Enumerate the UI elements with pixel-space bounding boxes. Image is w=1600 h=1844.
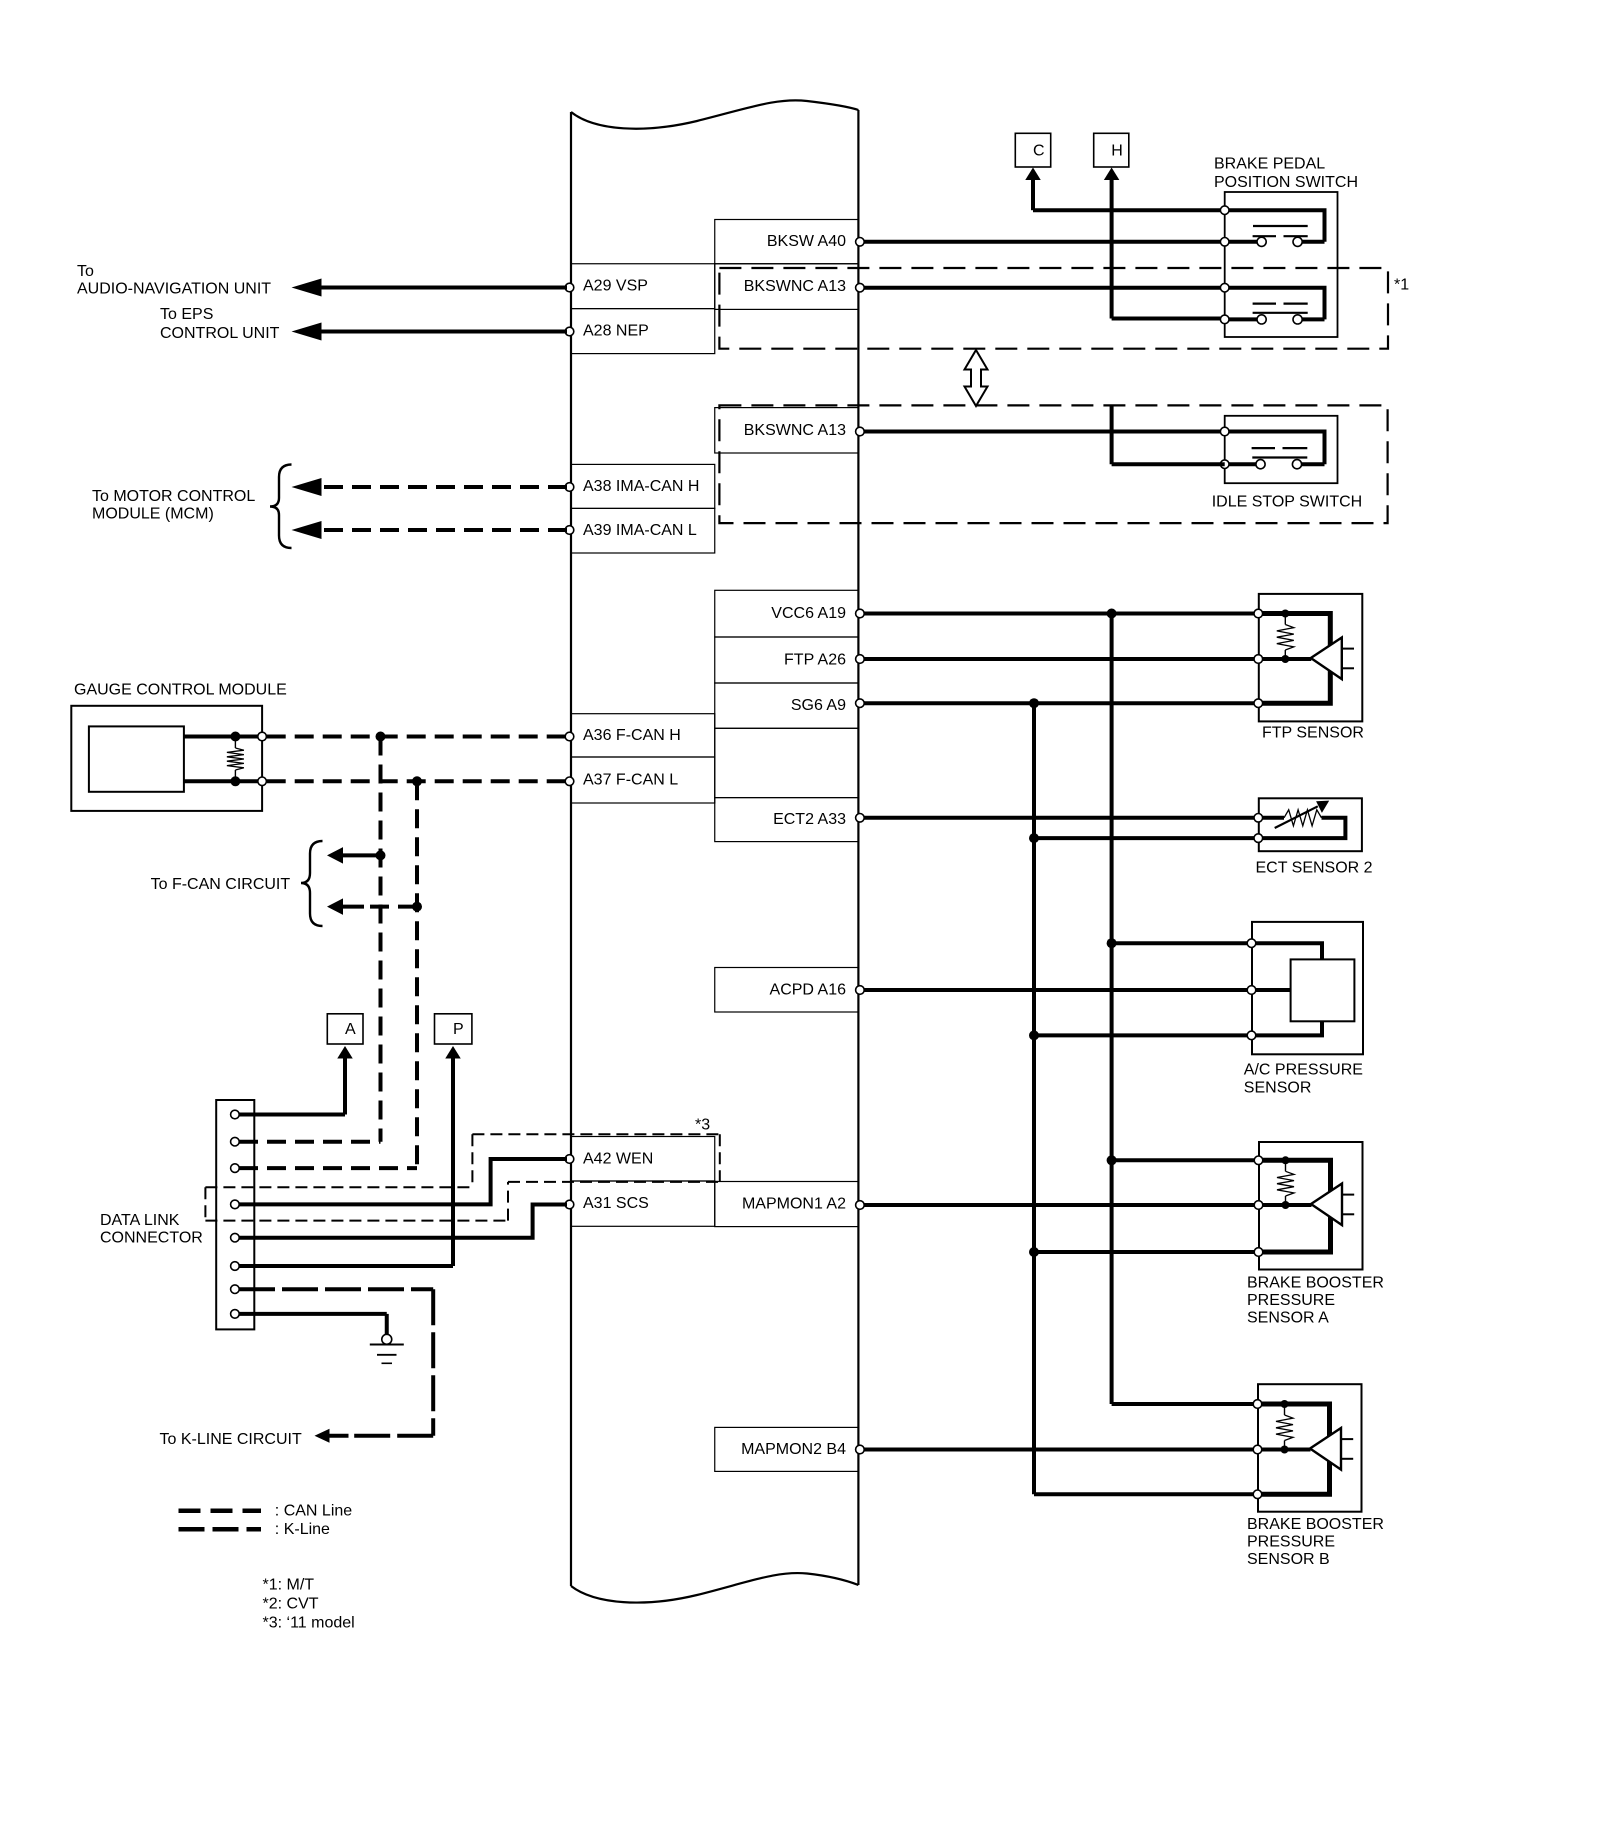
ECM pin A37 bbox=[565, 777, 574, 786]
svg-text:POSITION SWITCH: POSITION SWITCH bbox=[1214, 174, 1358, 191]
data link connector pin 4 bbox=[231, 1200, 240, 1209]
svg-text:BRAKE BOOSTER: BRAKE BOOSTER bbox=[1247, 1516, 1384, 1533]
svg-text:FTP SENSOR: FTP SENSOR bbox=[1262, 725, 1364, 742]
svg-text:ECT SENSOR 2: ECT SENSOR 2 bbox=[1256, 860, 1373, 877]
svg-text:A31 SCS: A31 SCS bbox=[583, 1195, 649, 1212]
svg-text:A29 VSP: A29 VSP bbox=[583, 278, 648, 295]
ECM pin box A42 WEN bbox=[571, 1137, 715, 1182]
wire MAPMON1 A2 bbox=[862, 1203, 1259, 1207]
wire DLC pin4 to A42 WEN bbox=[239, 1159, 567, 1204]
svg-text:MAPMON2 B4: MAPMON2 B4 bbox=[741, 1441, 846, 1458]
svg-text:A37 F-CAN L: A37 F-CAN L bbox=[583, 772, 678, 789]
svg-text:CONNECTOR: CONNECTOR bbox=[100, 1230, 203, 1247]
wire VCC6 A19 bbox=[862, 612, 1258, 616]
svg-text:BKSW A40: BKSW A40 bbox=[767, 233, 846, 250]
ECM pin A36 bbox=[565, 732, 574, 741]
ECM pin MAPMON1 A2 bbox=[856, 1201, 865, 1210]
ECT sensor 2 bbox=[1254, 798, 1362, 851]
label to EPS control unit bbox=[160, 306, 280, 342]
wire AC sensor pin3 to SG6 bus bbox=[1029, 1030, 1252, 1040]
brake pedal position switch bbox=[1220, 192, 1337, 337]
wire to C terminal bbox=[1025, 168, 1224, 211]
dashed option outline *3 bbox=[205, 1134, 719, 1220]
ECM pin ECT2 A33 bbox=[856, 814, 865, 823]
ECM pin MAPMON2 B4 bbox=[856, 1445, 865, 1454]
svg-text:SENSOR A: SENSOR A bbox=[1247, 1310, 1329, 1327]
ECM pin box VCC6 A19 bbox=[715, 590, 859, 637]
svg-text:SENSOR: SENSOR bbox=[1244, 1080, 1312, 1097]
ECM pin box ACPD A16 bbox=[715, 968, 859, 1013]
svg-text:ECT2 A33: ECT2 A33 bbox=[773, 811, 846, 828]
wire BKSWNC A13 lower bbox=[862, 430, 1225, 434]
wire DLC pin1 to A terminal bbox=[239, 1046, 353, 1115]
wire to H terminal bbox=[1104, 168, 1225, 319]
ECM pin box A28 NEP bbox=[571, 309, 715, 354]
wire brake booster A pin1 from VCC6 bus bbox=[1107, 1155, 1259, 1165]
svg-text:ACPD A16: ACPD A16 bbox=[770, 981, 847, 998]
wire to F-CAN circuit 2 bbox=[327, 898, 422, 915]
data link connector pin 3 bbox=[231, 1164, 240, 1173]
svg-text:IDLE STOP SWITCH: IDLE STOP SWITCH bbox=[1212, 494, 1363, 511]
ECM pin A39 bbox=[565, 526, 574, 535]
ECM pin box A31 SCS bbox=[571, 1181, 715, 1226]
legend K-line bbox=[179, 1521, 331, 1538]
data link connector pin 6 bbox=[231, 1262, 240, 1271]
terminal box P bbox=[435, 1014, 472, 1044]
ECM pin ACPD A16 bbox=[856, 986, 865, 995]
data link connector pin 8 bbox=[231, 1310, 240, 1319]
svg-text:H: H bbox=[1111, 143, 1123, 160]
ECM pin A42 bbox=[565, 1155, 574, 1164]
gauge control module bbox=[71, 706, 262, 811]
wire DLC pin7 K-line bbox=[239, 1289, 433, 1443]
wire A37 F-CAN L bbox=[267, 779, 567, 783]
svg-text:GAUGE CONTROL MODULE: GAUGE CONTROL MODULE bbox=[74, 682, 287, 699]
svg-text:DATA LINK: DATA LINK bbox=[100, 1212, 180, 1229]
idle stop switch bbox=[1220, 416, 1337, 483]
data link connector pin 5 bbox=[231, 1233, 240, 1242]
svg-text:A36 F-CAN H: A36 F-CAN H bbox=[583, 727, 681, 744]
dashed option box *1 bbox=[719, 268, 1388, 349]
ECM pin box MAPMON2 B4 bbox=[715, 1427, 859, 1471]
F-CAN L vertical bus bbox=[415, 781, 419, 1168]
gauge module pin 1 bbox=[258, 732, 267, 741]
svg-text:*2: CVT: *2: CVT bbox=[263, 1596, 319, 1613]
ECM pin box BKSWNC A13 bbox=[715, 408, 859, 453]
svg-text:To MOTOR CONTROL: To MOTOR CONTROL bbox=[92, 488, 255, 505]
ECM pin BKSWNC A13 upper bbox=[856, 283, 865, 292]
double arrow symbol bbox=[965, 350, 988, 406]
svg-text:BKSWNC A13: BKSWNC A13 bbox=[744, 422, 846, 439]
ECM pin A29 bbox=[565, 283, 574, 292]
gauge module pin 2 bbox=[258, 777, 267, 786]
ECM pin box A36 F-CAN H bbox=[571, 714, 715, 757]
wire BKSW A40 bbox=[862, 240, 1225, 244]
ECM pin box BKSWNC A13 bbox=[715, 264, 859, 310]
junction F-CAN L bus bbox=[412, 776, 422, 786]
F-CAN H vertical bus bbox=[379, 737, 383, 1142]
wire A36 F-CAN H bbox=[267, 735, 567, 739]
ECM pin box empty spacer box bbox=[715, 728, 859, 797]
svg-text:A: A bbox=[345, 1021, 356, 1038]
svg-text:: CAN Line: : CAN Line bbox=[275, 1502, 352, 1519]
svg-text:A39 IMA-CAN L: A39 IMA-CAN L bbox=[583, 522, 697, 539]
svg-text:BRAKE BOOSTER: BRAKE BOOSTER bbox=[1247, 1275, 1384, 1292]
ECM pin A38 bbox=[565, 483, 574, 492]
wire DLC pin2 to F-CAN H bus bbox=[239, 1140, 381, 1144]
ECM pin BKSWNC A13 lower bbox=[856, 427, 865, 436]
wire DLC pin6 to P terminal bbox=[239, 1046, 461, 1266]
data link connector pin 2 bbox=[231, 1137, 240, 1146]
ECM pin box A39 IMA-CAN L bbox=[571, 508, 715, 553]
ECM pin SG6 A9 bbox=[856, 699, 865, 708]
svg-text:A/C PRESSURE: A/C PRESSURE bbox=[1244, 1062, 1363, 1079]
brake pedal position switch label bbox=[1214, 156, 1358, 192]
svg-text:BRAKE PEDAL: BRAKE PEDAL bbox=[1214, 156, 1325, 173]
svg-text:P: P bbox=[453, 1021, 464, 1038]
data link connector pin 7 bbox=[231, 1285, 240, 1294]
wire BKSWNC A13 upper bbox=[862, 286, 1225, 290]
wire DLC pin5 to A31 SCS bbox=[239, 1205, 567, 1238]
wire AC sensor pin1 from VCC6 bus bbox=[1107, 938, 1252, 948]
svg-text:A38 IMA-CAN H: A38 IMA-CAN H bbox=[583, 478, 699, 495]
svg-text:PRESSURE: PRESSURE bbox=[1247, 1534, 1335, 1551]
label to motor control module bbox=[92, 488, 255, 523]
terminal box H bbox=[1094, 133, 1129, 167]
wire ACPD A16 bbox=[862, 988, 1252, 992]
wire ECT sensor return to SG6 bus bbox=[1029, 833, 1258, 843]
svg-text:*1: M/T: *1: M/T bbox=[263, 1577, 315, 1594]
legend CAN line bbox=[179, 1502, 353, 1519]
wire A28 NEP to EPS control unit bbox=[292, 323, 568, 341]
ECM pin box MAPMON1 A2 bbox=[715, 1182, 859, 1227]
terminal box C bbox=[1015, 133, 1050, 167]
wire idle stop switch return bbox=[1112, 405, 1225, 464]
ECM pin box A37 F-CAN L bbox=[571, 757, 715, 803]
brake booster pressure sensor B label bbox=[1247, 1516, 1384, 1568]
svg-text:AUDIO-NAVIGATION UNIT: AUDIO-NAVIGATION UNIT bbox=[77, 281, 271, 298]
wire MAPMON2 B4 bbox=[862, 1448, 1258, 1452]
svg-text:CONTROL UNIT: CONTROL UNIT bbox=[160, 325, 280, 342]
svg-text:MODULE (MCM): MODULE (MCM) bbox=[92, 506, 214, 523]
brace MCM bbox=[270, 465, 292, 549]
ECM pin box A29 VSP bbox=[571, 264, 715, 309]
ECM pin box BKSW A40 bbox=[715, 220, 859, 264]
svg-text:BKSWNC A13: BKSWNC A13 bbox=[744, 278, 846, 295]
svg-text:*1: *1 bbox=[1394, 277, 1409, 294]
SG6 vertical bus bbox=[1029, 698, 1258, 1494]
svg-text:MAPMON1 A2: MAPMON1 A2 bbox=[742, 1196, 846, 1213]
svg-text:To K-LINE CIRCUIT: To K-LINE CIRCUIT bbox=[160, 1431, 302, 1448]
svg-text:A28 NEP: A28 NEP bbox=[583, 323, 649, 340]
data link connector pin 1 bbox=[231, 1110, 240, 1119]
data link connector label bbox=[100, 1212, 203, 1247]
svg-text:SENSOR B: SENSOR B bbox=[1247, 1551, 1330, 1568]
label to audio-navigation unit bbox=[77, 263, 271, 298]
ECM pin BKSW A40 bbox=[856, 238, 865, 247]
svg-text:*3: *3 bbox=[695, 1117, 710, 1134]
svg-text:*3: ‘11 model: *3: ‘11 model bbox=[263, 1615, 355, 1632]
wire A29 VSP to audio-navigation unit bbox=[292, 279, 568, 297]
svg-text:To F-CAN CIRCUIT: To F-CAN CIRCUIT bbox=[151, 876, 291, 893]
wire A39 IMA-CAN L to MCM bbox=[292, 521, 568, 539]
brake booster pressure sensor B bbox=[1253, 1384, 1361, 1512]
svg-text:To EPS: To EPS bbox=[160, 306, 213, 323]
ECM pin box FTP A26 bbox=[715, 637, 859, 683]
wire FTP A26 bbox=[862, 657, 1258, 661]
FTP sensor bbox=[1254, 594, 1362, 722]
terminal box A bbox=[327, 1014, 363, 1044]
ECM pin VCC6 A19 bbox=[856, 609, 865, 618]
wire brake booster A pin3 to SG6 bus bbox=[1029, 1247, 1259, 1257]
ECM pin box A38 IMA-CAN H bbox=[571, 464, 715, 508]
brake booster pressure sensor A label bbox=[1247, 1275, 1384, 1327]
brace F-CAN bbox=[301, 841, 323, 926]
brake booster pressure sensor A bbox=[1254, 1142, 1362, 1270]
ECM body outline bbox=[571, 100, 858, 1602]
ECM pin A28 bbox=[565, 327, 574, 336]
VCC6 vertical bus bbox=[1107, 609, 1258, 1405]
resistor in gauge control module bbox=[227, 732, 244, 787]
junction F-CAN H bus bbox=[376, 732, 386, 742]
svg-text:To: To bbox=[77, 263, 94, 280]
wire SG6 A9 bbox=[862, 701, 1258, 705]
svg-text:PRESSURE: PRESSURE bbox=[1247, 1292, 1335, 1309]
data link connector body bbox=[216, 1100, 254, 1329]
ECM pin FTP A26 bbox=[856, 655, 865, 664]
ECM pin A31 bbox=[565, 1200, 574, 1209]
ECM pin box ECT2 A33 bbox=[715, 798, 859, 842]
wire A38 IMA-CAN H to MCM bbox=[292, 478, 568, 496]
svg-text:: K-Line: : K-Line bbox=[275, 1521, 330, 1538]
wire ECT2 A33 bbox=[862, 816, 1258, 820]
ECM pin box SG6 A9 bbox=[715, 683, 859, 728]
A/C pressure sensor bbox=[1247, 922, 1363, 1054]
svg-text:VCC6 A19: VCC6 A19 bbox=[771, 605, 846, 622]
dashed option box idle stop bbox=[719, 405, 1387, 523]
wire to F-CAN circuit 1 bbox=[327, 847, 386, 864]
A/C pressure sensor label bbox=[1244, 1062, 1363, 1097]
wire DLC pin3 to F-CAN L bus bbox=[239, 1166, 417, 1170]
svg-text:FTP A26: FTP A26 bbox=[784, 652, 846, 669]
wire DLC pin8 to ground bbox=[239, 1314, 387, 1335]
svg-text:SG6 A9: SG6 A9 bbox=[791, 697, 846, 714]
ground bbox=[370, 1334, 404, 1363]
svg-text:A42 WEN: A42 WEN bbox=[583, 1150, 653, 1167]
svg-text:C: C bbox=[1033, 143, 1045, 160]
